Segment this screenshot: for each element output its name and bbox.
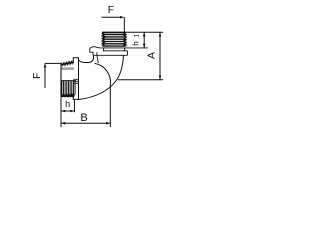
svg-text:1: 1: [133, 34, 140, 38]
svg-text:A: A: [146, 52, 158, 59]
svg-text:F: F: [31, 73, 43, 79]
svg-text:h: h: [65, 99, 70, 109]
svg-text:F: F: [108, 4, 114, 16]
svg-text:B: B: [80, 112, 87, 124]
svg-text:h: h: [130, 41, 140, 46]
